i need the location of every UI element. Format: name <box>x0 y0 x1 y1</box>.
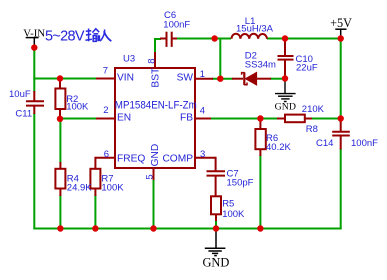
svg-text:100K: 100K <box>222 209 245 220</box>
svg-text:100nF: 100nF <box>163 20 190 31</box>
svg-text:5~28V: 5~28V <box>45 29 85 45</box>
svg-text:24.9K: 24.9K <box>67 182 92 193</box>
svg-text:8: 8 <box>146 59 157 64</box>
svg-text:GND: GND <box>275 102 296 113</box>
svg-text:MP1584EN-LF-Zm: MP1584EN-LF-Zm <box>115 99 197 111</box>
svg-text:COMP: COMP <box>162 153 193 164</box>
svg-text:100K: 100K <box>66 101 89 112</box>
svg-text:100K: 100K <box>101 182 124 193</box>
svg-text:GND: GND <box>150 144 161 167</box>
svg-text:1: 1 <box>200 69 205 80</box>
svg-text:+5V: +5V <box>330 16 352 30</box>
svg-text:U3: U3 <box>123 54 135 65</box>
svg-text:BST: BST <box>151 68 162 88</box>
svg-text:40.2K: 40.2K <box>266 142 291 153</box>
svg-text:C14: C14 <box>316 138 333 149</box>
svg-text:SW: SW <box>177 73 194 84</box>
svg-text:R8: R8 <box>306 124 318 135</box>
svg-text:15uH/3A: 15uH/3A <box>236 24 274 35</box>
svg-text:22uF: 22uF <box>296 62 318 73</box>
svg-text:GND: GND <box>202 256 229 270</box>
svg-text:210K: 210K <box>302 104 325 115</box>
svg-text:FB: FB <box>180 113 193 124</box>
svg-text:4: 4 <box>200 106 205 117</box>
svg-text:7: 7 <box>103 65 108 76</box>
svg-text:EN: EN <box>117 113 131 124</box>
svg-text:VIN: VIN <box>117 73 134 84</box>
svg-text:FREQ: FREQ <box>117 153 145 164</box>
svg-text:10uF: 10uF <box>9 89 31 100</box>
svg-text:SS34m: SS34m <box>245 60 276 71</box>
svg-text:5: 5 <box>144 174 155 179</box>
svg-text:2: 2 <box>103 105 108 116</box>
svg-text:100nF: 100nF <box>351 138 378 149</box>
svg-text:C11: C11 <box>15 109 32 120</box>
svg-text:6: 6 <box>104 149 109 160</box>
svg-text:V-IN: V-IN <box>23 27 45 39</box>
svg-text:150pF: 150pF <box>227 177 254 188</box>
svg-text:3: 3 <box>200 149 205 160</box>
